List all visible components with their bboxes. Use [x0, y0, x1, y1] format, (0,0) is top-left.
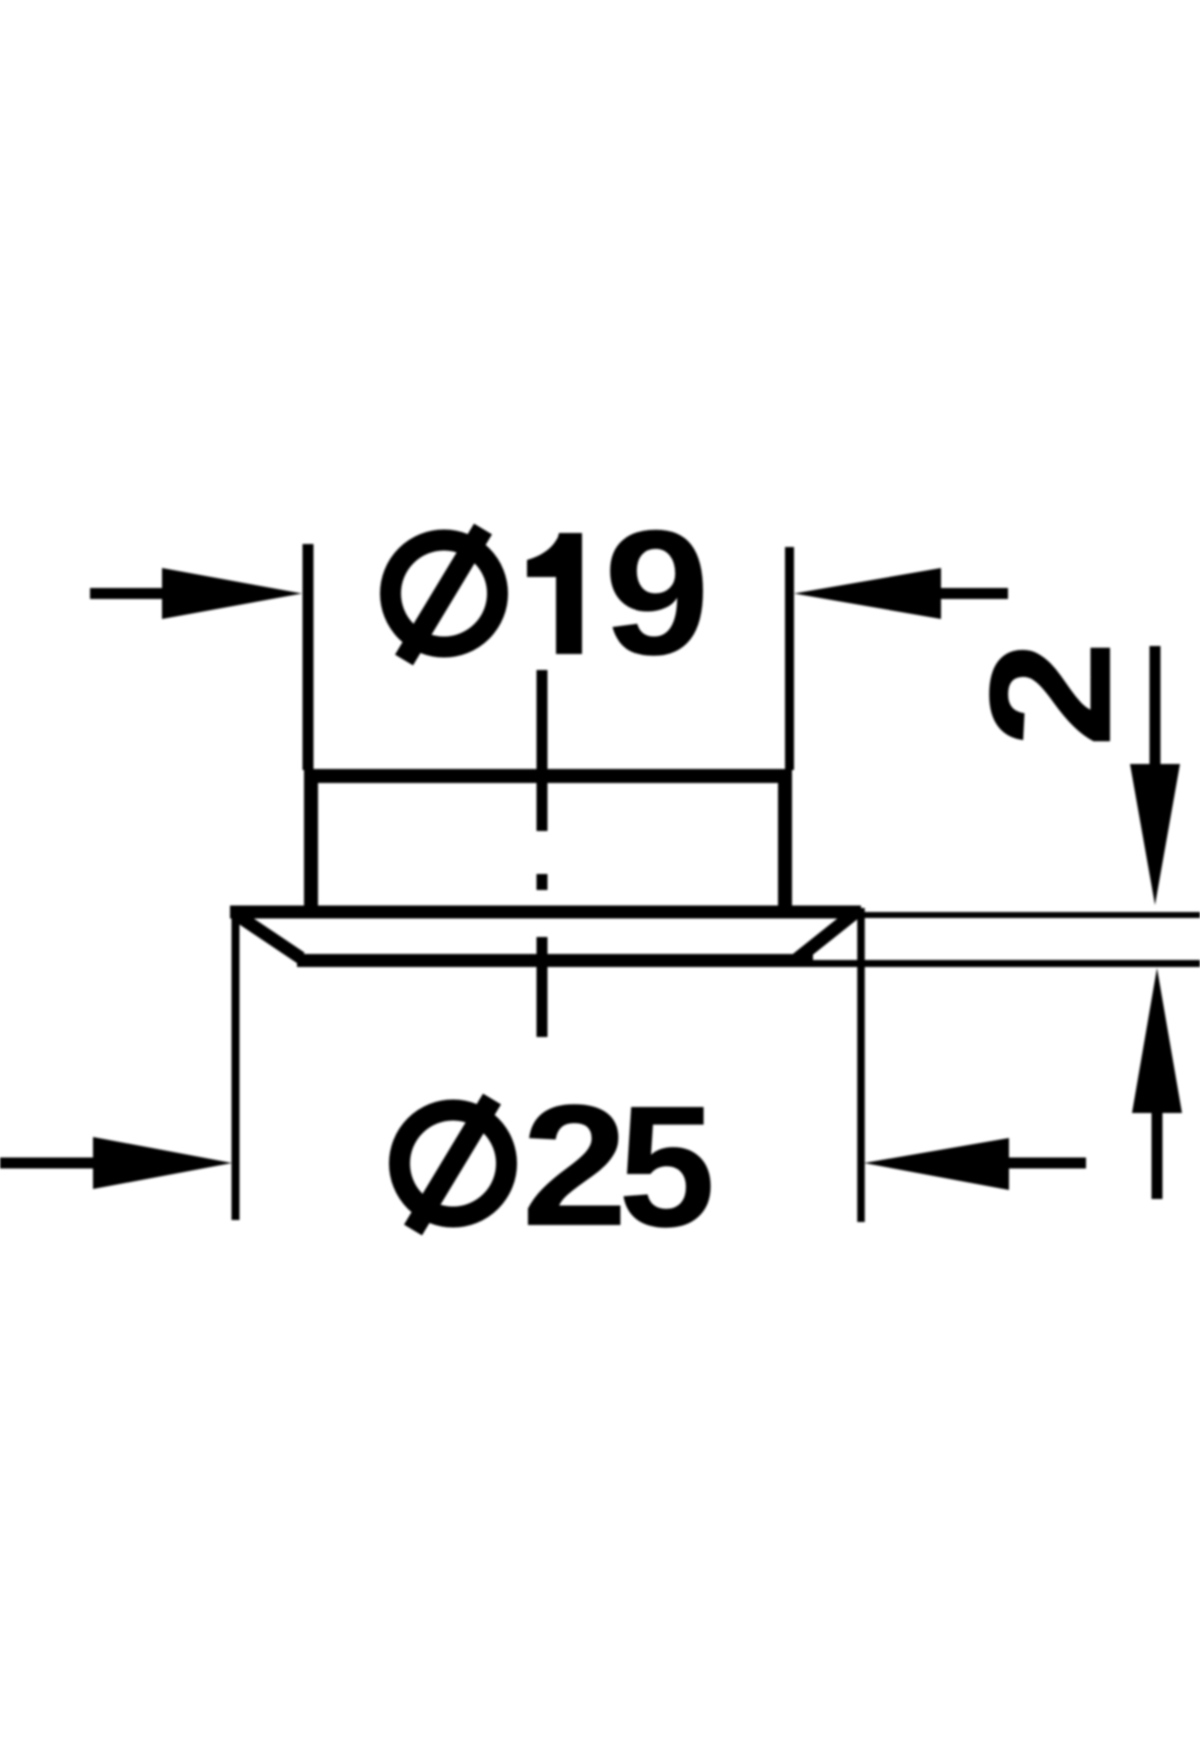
svg-text:9: 9	[604, 493, 711, 692]
svg-text:2: 2	[953, 640, 1147, 748]
svg-text:2: 2	[521, 1068, 628, 1262]
svg-text:5: 5	[618, 1069, 715, 1263]
